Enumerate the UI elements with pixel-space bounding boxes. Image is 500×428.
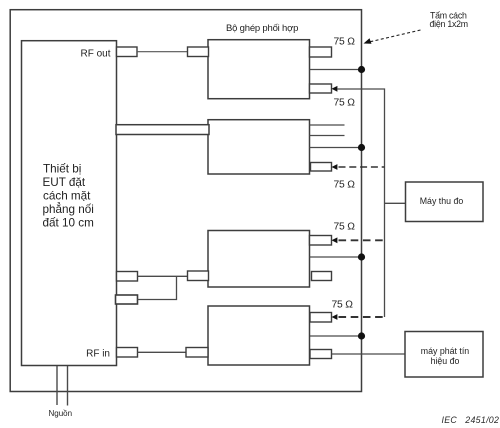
coupler 3 top connector [310,236,332,246]
RF in connector at EUT [117,348,138,358]
coupler 1 bottom connector [310,84,332,93]
bar from EUT to coupler 2 [116,125,209,135]
svg-text:IEC 2451/02: IEC 2451/02 [442,415,500,425]
signal generator line [332,353,406,355]
wire RF out [137,51,188,53]
svg-text:Thiết bị: Thiết bị [43,163,81,176]
EUT connector row3 upper [117,272,138,282]
coupler box 1 [208,40,310,99]
svg-text:Bộ ghép phối hợp: Bộ ghép phối hợp [226,23,298,34]
junction dot 4 [358,332,365,339]
svg-text:75 Ω: 75 Ω [334,180,356,191]
wire row3 lower [138,276,177,299]
svg-text:Máy thu đo: Máy thu đo [420,196,464,206]
wire coupler3 to plate bus [310,256,362,258]
callout arrowhead [364,38,372,44]
svg-text:Nguồn: Nguồn [49,409,73,418]
power line right [67,366,69,406]
arrowhead into coupler1 bottom connector [332,86,338,92]
coupler 2 bottom connector [311,163,332,172]
power line left [56,366,58,405]
insulating ground plane (outer rectangle) [10,10,361,392]
junction dot 3 [358,253,365,260]
coupler box 2 [208,120,310,174]
svg-text:EUT đặt: EUT đặt [43,176,86,189]
coupler box 3 [208,231,310,288]
svg-text:máy phát tín: máy phát tín [421,346,470,356]
coupler 2 open line b [310,135,345,137]
svg-text:RF in: RF in [86,349,110,360]
wire coupler4 to plate bus [310,335,362,337]
coupler 4 top connector [310,313,332,323]
wire row3 upper [138,275,188,277]
coupler 4 bottom connector [310,350,332,359]
svg-text:75 Ω: 75 Ω [334,98,356,109]
receiver dashed line to coupler 4 [339,316,385,318]
EUT connector row3 lower [116,295,138,304]
arrowhead into coupler3 top connector [332,237,338,243]
wire coupler1 to plate bus [310,69,362,71]
arrowhead into coupler4 top connector [332,314,338,320]
svg-text:75 Ω: 75 Ω [334,222,356,233]
arrowhead into coupler2 bottom connector [332,164,338,170]
svg-text:cách mặt: cách mặt [43,190,91,203]
callout dashed arrow [369,30,421,42]
junction dot 1 [358,66,365,73]
RF out connector at coupler 1 [188,47,209,57]
svg-text:75 Ω: 75 Ω [334,37,356,48]
signal generator box [405,332,483,378]
svg-text:phẳng nối: phẳng nối [43,203,94,216]
svg-text:đất 10 cm: đất 10 cm [43,217,94,230]
RF out connector at EUT [117,47,138,57]
svg-text:RF out: RF out [80,48,110,59]
EUT box [22,41,117,366]
coupler 1 top connector [310,47,332,57]
measuring receiver box [406,182,484,222]
receiver line (solid) to coupler 1 [337,89,385,317]
receiver dashed line to coupler 2 [339,166,385,168]
receiver branch wire [385,202,406,204]
receiver dashed line to coupler 3 [339,239,385,241]
wire RF in [138,351,187,353]
coupler box 4 [208,306,310,365]
coupler 2 open line a [310,124,345,126]
svg-text:điện 1x2m: điện 1x2m [430,19,468,29]
connector into coupler 3 [188,271,209,281]
svg-text:hiệu đo: hiệu đo [431,356,460,366]
coupler 3 bottom connector stub [312,272,332,281]
RF in connector at coupler 4 [186,348,208,358]
junction dot 2 [358,144,365,151]
wire coupler2 to plate bus [310,147,362,149]
svg-text:75 Ω: 75 Ω [332,300,354,311]
